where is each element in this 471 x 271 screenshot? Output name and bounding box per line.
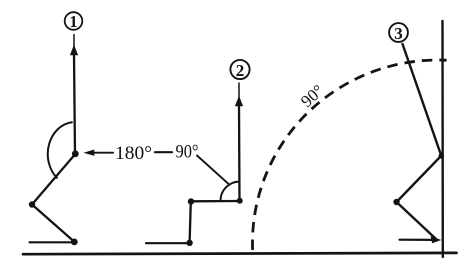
svg-text:1: 1 — [69, 12, 77, 31]
svg-text:90°: 90° — [297, 81, 327, 111]
figure 3 vertical reference line — [441, 21, 444, 257]
svg-text:90°: 90° — [176, 142, 199, 163]
figure 1 label circle — [65, 12, 83, 30]
figure 1 knee dot — [29, 201, 35, 207]
figure 3 torso — [403, 44, 442, 155]
figure 2 torso arrow — [236, 97, 243, 106]
figure 2 hip arc (90 deg) — [221, 182, 240, 201]
figure 3 foot — [400, 239, 435, 241]
figure 1 ankle dot — [71, 239, 78, 246]
figure 1 thigh — [32, 154, 75, 205]
figure 1 torso — [74, 54, 75, 155]
figure 1 torso arrow — [71, 46, 78, 55]
figure 2 torso stub — [238, 83, 240, 99]
figure 2 torso — [238, 105, 241, 201]
annotation pointer line to figure 2 arc — [197, 156, 230, 185]
figure 2 thigh — [191, 200, 240, 203]
figure 2 ankle dot — [186, 240, 192, 246]
svg-text:2: 2 — [236, 61, 245, 80]
figure 3 ankle arrowhead — [431, 237, 440, 243]
dashed 90 deg rotation arc — [252, 60, 446, 250]
figure 1 hip dot — [72, 150, 79, 157]
figure 3 label circle — [389, 23, 408, 42]
figure 1 shin — [32, 205, 74, 242]
figure 3 thigh — [397, 156, 442, 202]
figure 3 hip dot — [439, 153, 444, 158]
annotation left arrow head — [85, 150, 94, 155]
figure 2 label circle — [230, 60, 249, 79]
svg-text:3: 3 — [394, 24, 403, 43]
figure 2 hip dot — [237, 198, 243, 204]
annotation dash — [155, 151, 172, 153]
figure 2 knee dot — [188, 198, 194, 204]
figure 2 foot — [146, 242, 190, 244]
figure 3 knee dot — [393, 199, 399, 205]
figure 1 torso stub — [73, 35, 75, 49]
figure 1 hip arc (180 deg) — [48, 122, 72, 178]
annotation left arrow tail — [93, 152, 114, 154]
figure 3 shin — [397, 202, 437, 239]
figure 1 foot — [30, 241, 75, 243]
svg-text:180°: 180° — [115, 143, 152, 164]
ground line — [23, 253, 457, 254]
figure 2 shin — [190, 202, 191, 243]
